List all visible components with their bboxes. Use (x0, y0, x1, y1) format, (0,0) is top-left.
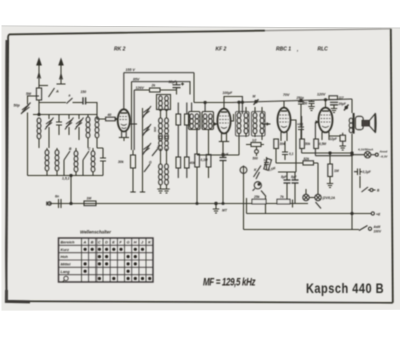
svg-text:K: K (148, 241, 151, 245)
electrolytic 25uF leads (222, 142, 224, 204)
switch B blade (64, 151, 70, 160)
antenna 1 arrowhead (37, 58, 42, 65)
mains switch blade (359, 226, 368, 231)
resistor 82k leads (276, 163, 318, 194)
IFT1 risers to bus (192, 103, 206, 112)
svg-text:KF 2: KF 2 (216, 47, 227, 53)
svg-text:M: M (253, 95, 256, 99)
svg-text:150: 150 (81, 90, 87, 94)
wire L6 (75, 148, 77, 176)
junction heater x330 (329, 152, 331, 154)
resistor 1M top wire (329, 153, 331, 164)
grid arrow into V1 (115, 117, 118, 121)
svg-text:RBC 1: RBC 1 (276, 47, 291, 53)
wire jack down (243, 174, 245, 230)
resistor 1M bottom wire (329, 177, 331, 184)
wire antenna to switch row (38, 100, 40, 115)
table verticals (82, 238, 147, 282)
ground under L11 (163, 189, 169, 193)
wires Rc Rd bottom (178, 168, 187, 178)
transformer feed from bus (351, 99, 353, 140)
wire V2 plate stub (231, 114, 234, 121)
svg-text:20µF: 20µF (338, 102, 347, 106)
AF ground bus y203.5 (49, 203, 308, 205)
switch C blade (83, 151, 89, 160)
fuse M on HT bus (254, 99, 259, 105)
terminal +E (371, 212, 374, 215)
IFT2 junction top (238, 101, 240, 103)
cap 20uF plates (330, 102, 338, 105)
svg-text:0,1: 0,1 (289, 152, 294, 156)
cap c7 plates (298, 127, 304, 130)
table outer border (59, 238, 154, 282)
svg-text:H: H (134, 241, 137, 245)
osc rail end tick (140, 191, 145, 193)
feed line over electrolytics (278, 150, 296, 172)
grid arrow into V4 (316, 120, 320, 124)
junction x197 on AF bus (196, 203, 198, 205)
svg-text:RLC: RLC (318, 47, 329, 53)
grid arrow into V2 (214, 122, 218, 126)
wire IFT3 to V3 grid (262, 123, 271, 125)
svg-text:0,5M: 0,5M (319, 142, 326, 146)
wire V3 plate right (291, 120, 297, 150)
electrolytic 8uF a plates (284, 180, 291, 183)
screen bypass cap 350 lead (311, 100, 313, 106)
wire L3 (96, 115, 98, 149)
dots row Hoh (98, 255, 101, 258)
oscillator coil box (157, 95, 171, 110)
ground under L10 (157, 189, 163, 193)
coil L3 (95, 117, 99, 138)
wires Ra Rb bottom (178, 125, 187, 157)
wire 126V drop x134.2 (134, 90, 136, 150)
screen bypass cap ground (308, 107, 314, 111)
IFT3 leads (255, 107, 262, 140)
svg-text:500: 500 (153, 127, 157, 132)
trimmer C3 arrow (65, 118, 74, 130)
tube V2 envelope (217, 109, 230, 134)
wire L4 down (46, 148, 48, 176)
IFT1 returns down (197, 130, 209, 151)
wire 50k to 82k feed (275, 149, 277, 164)
tube V1 cathode tail (123, 138, 125, 142)
svg-text:Lang: Lang (61, 270, 71, 274)
grid resistor 0,5M body (314, 139, 319, 149)
wire L1 down (38, 139, 40, 148)
svg-text:1,5,1: 1,5,1 (62, 177, 70, 181)
capacitor 150 plates (83, 97, 86, 104)
svg-text:25k: 25k (253, 195, 261, 199)
IFT1 box a coil 1 (190, 114, 194, 129)
pilot wire (371, 154, 376, 156)
coil L2 (86, 117, 90, 138)
end tick after 7k (290, 200, 293, 208)
lower resistor Rd body (185, 157, 190, 168)
tube V1 base bar (119, 137, 129, 139)
cap c7 leads (300, 116, 302, 139)
tube V2 legs (222, 133, 227, 142)
lamp link wire (309, 197, 315, 199)
junction x71 on AF bus (70, 202, 72, 204)
anode arrow junction (345, 106, 347, 108)
resistor 117 body (329, 96, 338, 100)
tube V3 cathode (281, 126, 287, 127)
dial lamp 1 (303, 194, 309, 200)
tube V4 grid dashes (321, 115, 331, 122)
MT ground bars (213, 209, 219, 213)
trimmer 50p plates (22, 105, 30, 113)
svg-text:0,1µF: 0,1µF (363, 170, 372, 174)
tube V1 legs (122, 131, 127, 138)
switch G blade (144, 164, 150, 172)
resistor 1/2 leads (246, 144, 264, 146)
svg-text:50k: 50k (305, 142, 311, 146)
electrolytic 25uF plates (220, 158, 227, 161)
wire trimmer down (27, 113, 29, 176)
wire C4 (78, 115, 80, 141)
junction x352 on heater line (351, 153, 353, 155)
wire to cap 150 (73, 102, 83, 104)
svg-text:Anod: Anod (379, 150, 388, 154)
mains terminal (368, 227, 371, 230)
svg-text:100µF: 100µF (223, 91, 234, 95)
cathode resistor lead (329, 133, 343, 146)
input jack circle (48, 202, 51, 205)
svg-text:(2V/0,2A: (2V/0,2A (323, 196, 336, 200)
fuse F1 body (36, 88, 41, 100)
switch B2 terminal (370, 189, 373, 192)
wire R1 to tube (115, 118, 118, 120)
pilot lamp feed (352, 155, 364, 156)
svg-text:+0,1: +0,1 (297, 123, 304, 127)
wire L5 down (56, 148, 58, 176)
osc trimmer T1 plates (144, 108, 150, 116)
MT ground stub (215, 204, 217, 210)
svg-text:32µF: 32µF (169, 80, 178, 84)
antenna 2 lower arrow (60, 74, 63, 80)
svg-text:A: A (83, 241, 87, 245)
IFT3 coil a (253, 113, 257, 134)
heater line b y155.7 (315, 155, 352, 157)
svg-text:a: a (69, 94, 71, 98)
speaker pot outline (355, 116, 363, 129)
tube V1 envelope (118, 109, 130, 131)
main HT bus right part (tilted) (232, 99, 352, 103)
border frame bottom edge (6, 301, 392, 303)
tube V2 plate feed loop (224, 97, 242, 115)
series resistor 1M body (84, 201, 96, 206)
switch a blade on row (67, 98, 73, 104)
coil L4 lower (45, 150, 49, 171)
tube V2 anode (221, 111, 227, 113)
cathode resistor 30k body (131, 155, 136, 168)
cathode resistor 50k body (274, 139, 279, 149)
IFT1 box b coil 2 (209, 114, 213, 129)
cap c6 plates (282, 152, 288, 155)
volume pot arrow (254, 166, 262, 178)
svg-text:126V: 126V (136, 86, 145, 90)
oscillator coil b (165, 96, 169, 111)
capacitor C2 plates (56, 122, 62, 125)
svg-text:MF = 129,5 kHz: MF = 129,5 kHz (203, 276, 256, 289)
screen resistor Ra body (176, 114, 181, 125)
wire 30k down (132, 150, 134, 192)
coil L7 lower (91, 151, 95, 172)
fuse M dot (255, 100, 257, 102)
tube V2 cathode (221, 127, 227, 128)
trimmer C3 plates (66, 120, 72, 128)
svg-text:,: , (296, 47, 298, 53)
pickup jack P (240, 167, 247, 174)
trimmer C4 arrow (75, 118, 84, 130)
junction x216 with MT ground (215, 202, 217, 204)
wire C1 (48, 115, 50, 149)
cathode resistor ground (340, 146, 346, 150)
tube V2 grid dashes (219, 116, 228, 123)
wire C5 (102, 148, 104, 176)
switch B2 blade (362, 187, 369, 192)
svg-text:A: A (55, 90, 59, 94)
wire 0,1M (196, 150, 198, 204)
tube V3 anode (281, 110, 287, 112)
svg-text:0,1M: 0,1M (201, 158, 208, 162)
IFT2 coil a (237, 113, 241, 134)
osc trimmer T1 arrow (143, 106, 152, 118)
rail 155V wire (124, 72, 194, 74)
ground under 20uF (331, 109, 337, 113)
svg-text:D: D (105, 241, 108, 245)
svg-text:100V: 100V (374, 230, 382, 234)
osc left rail (142, 108, 144, 192)
svg-text:4,1V/50mA: 4,1V/50mA (357, 148, 373, 152)
dots row Lang (84, 270, 87, 273)
wire C2 (58, 115, 60, 136)
grid bus y114.5 (33, 114, 97, 116)
wire L7 (92, 148, 94, 176)
junction x352 on +E bus (351, 212, 353, 214)
svg-text:120V: 120V (317, 93, 326, 97)
svg-text:117: 117 (339, 96, 344, 100)
svg-text:1/2: 1/2 (252, 139, 257, 143)
pilot lamp (364, 152, 370, 158)
paper top edge shadow (2, 26, 400, 28)
table double line after B (96, 238, 98, 282)
coil L1 (37, 118, 41, 139)
resistor 82k body (303, 161, 314, 165)
lower resistor Rc body (176, 157, 181, 168)
wire cluster to grid resistor (97, 115, 106, 120)
svg-text:Kapsch 440 B: Kapsch 440 B (306, 281, 384, 296)
junction x223 on AF bus (222, 203, 224, 205)
grid arrow into V3 (267, 122, 271, 126)
dial lamp 2 (315, 194, 321, 200)
trimmer C1 plates (46, 120, 52, 128)
junction heater x352 (351, 152, 353, 154)
svg-text:+E: +E (376, 213, 381, 217)
jack circle small (255, 150, 259, 154)
resistor 1M body (328, 164, 333, 177)
tube V4 legs (322, 132, 329, 140)
IFT1 box a (189, 112, 201, 130)
cap 250p lead (300, 104, 302, 116)
osc trimmer T3 arrow (143, 143, 152, 155)
junction antenna/bus (38, 113, 40, 115)
cathode resistor small body (340, 135, 346, 141)
resistor 0,1M body (195, 154, 200, 167)
trimmer C1 arrow (45, 118, 54, 130)
tube V3 top stub (283, 101, 285, 108)
oscillator coil a (159, 96, 163, 111)
antenna 2 base bar (57, 83, 66, 85)
svg-text:1M: 1M (87, 197, 92, 201)
wires Ra Rb top (178, 103, 187, 115)
border frame top right part (faded) (265, 29, 391, 31)
lamp 1 top stub (305, 189, 307, 194)
tube V2 base bar (219, 141, 229, 143)
svg-text:85V: 85V (133, 78, 140, 82)
svg-text:Hoh: Hoh (61, 255, 69, 259)
switch A blade (49, 88, 55, 97)
tube V4 cathode (322, 126, 329, 127)
IFT3 box (252, 112, 266, 137)
svg-text:6n: 6n (55, 195, 59, 199)
osc coil L8b lower half (159, 136, 163, 151)
svg-text:G: G (149, 161, 152, 165)
wire 85V drop x131.5 (131, 82, 133, 150)
table horizontals (59, 245, 154, 274)
svg-text:1M: 1M (334, 169, 339, 173)
phono symbol circle (254, 182, 261, 189)
resistor 25k body on bus (252, 199, 266, 204)
wire tube V1 plate side (130, 123, 137, 125)
coil L6 lower (74, 151, 78, 172)
ground under 1M (327, 184, 333, 188)
switch under phono blade (261, 191, 266, 197)
capacitor 32uF plates (173, 85, 181, 88)
input jack prong (46, 202, 48, 206)
osc trimmer T2 plates (144, 126, 150, 134)
dots row phono (98, 277, 101, 280)
speaker horn (369, 114, 375, 132)
svg-text:E: E (112, 241, 115, 245)
switch Z blade (152, 149, 158, 157)
speaker magnet (362, 120, 370, 126)
osc coil L9b lower half (165, 136, 169, 151)
IFT1 box a coil 2 (195, 114, 199, 129)
border frame right edge (391, 29, 393, 303)
antenna 2 mast (60, 66, 62, 84)
speaker horn mouth (375, 113, 378, 133)
wire C3 (68, 115, 70, 136)
trimmer C4 plates (76, 120, 82, 128)
tube V3 envelope (278, 108, 291, 133)
osc coil L9 (165, 118, 169, 139)
electrolytic leads (287, 172, 295, 204)
wire coils upper pair (161, 110, 167, 164)
jack small stub (256, 147, 258, 157)
heater line a y153 (302, 152, 352, 154)
svg-text:Mittel: Mittel (61, 263, 72, 267)
screen bypass cap 350 plates (309, 102, 315, 104)
cap 20uF lead and ground (333, 105, 335, 108)
grid resistor 50k body (300, 139, 305, 149)
AVC line y155 (197, 137, 239, 155)
IFT1 return resistor body (206, 155, 211, 168)
resistor 0,5M diag body (264, 158, 272, 170)
tube V1 grid dashes (120, 117, 129, 120)
antenna 1 mast (38, 66, 40, 88)
IFT1 box b coil 1 (203, 114, 207, 129)
capacitor 32uF plus (181, 83, 184, 86)
coil L5 lower (55, 150, 59, 171)
tube V1 cathode (121, 124, 127, 129)
svg-text:B: B (91, 241, 94, 245)
junction V4 top (324, 99, 326, 101)
IFT2 box (236, 112, 250, 137)
junction AVC x223 (222, 154, 224, 156)
tube V4 top stub (325, 100, 327, 108)
bottom bus of input cluster (28, 175, 104, 177)
svg-text:G: G (127, 241, 130, 245)
svg-text:Bereich: Bereich (61, 241, 76, 245)
anode feed wire x352 down (351, 140, 353, 230)
wire 30k end tick (130, 191, 135, 193)
junction plate loop on bus (241, 101, 243, 103)
wire switch B (63, 160, 65, 176)
resistor R2 2k body (150, 88, 161, 92)
capacitor C5 plates (100, 158, 106, 161)
junction bus/downwire (70, 174, 72, 176)
IFT2 leads (239, 102, 246, 140)
cap 0,1uF lead (354, 171, 362, 173)
border frame top left part (8, 31, 265, 40)
IFT1 return resistor lead (208, 150, 210, 178)
svg-text:304: 304 (280, 142, 286, 146)
tube V4 envelope (319, 108, 333, 133)
svg-text:155 V: 155 V (126, 68, 136, 72)
border frame left edge base (6, 40, 8, 301)
anode arrow to transformer (344, 105, 349, 111)
cap c6 lead (284, 141, 286, 160)
wire phono switch down (265, 197, 267, 214)
svg-text:~6,3V: ~6,3V (380, 155, 389, 159)
svg-text:500: 500 (253, 157, 259, 161)
svg-text:70V: 70V (283, 93, 290, 97)
wire L2 (87, 115, 89, 149)
dots row Kurz (84, 248, 87, 251)
svg-text:50p: 50p (14, 104, 21, 108)
svg-text:Wellenschalter: Wellenschalter (80, 230, 111, 235)
switch under lamps (316, 202, 322, 209)
switch A top link (39, 85, 48, 87)
osc coil L8 (159, 118, 163, 139)
wire top row y102.5 (39, 102, 66, 104)
rail 126V wire (136, 89, 177, 91)
osc trimmer T3 plates (144, 145, 150, 153)
tube V1 anode (121, 112, 128, 114)
svg-text:12µF: 12µF (330, 137, 338, 141)
wire down to AF bus (70, 176, 72, 204)
wire switch C (82, 160, 84, 176)
svg-text:40: 40 (107, 113, 112, 117)
phono inner dot (258, 183, 260, 185)
svg-text:A±M: A±M (373, 225, 381, 229)
IFT3 coil b (260, 113, 264, 134)
output transformer core bar (353, 113, 355, 134)
frame left edge (smudged) (5, 40, 8, 301)
switch K blade (256, 172, 260, 179)
